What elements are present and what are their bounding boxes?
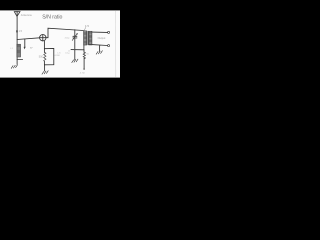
svg-text:1.2k: 1.2k xyxy=(57,52,61,54)
svg-text:4.7Ω: 4.7Ω xyxy=(80,73,85,75)
svg-text:50Ω: 50Ω xyxy=(39,55,44,58)
svg-text:1:5: 1:5 xyxy=(85,24,89,28)
svg-text:Antenna: Antenna xyxy=(21,13,32,17)
svg-text:S/N ratio: S/N ratio xyxy=(42,15,62,21)
svg-text:200p: 200p xyxy=(65,37,71,39)
svg-text:Output: Output xyxy=(98,36,106,40)
svg-text:0.1μ: 0.1μ xyxy=(65,52,70,54)
